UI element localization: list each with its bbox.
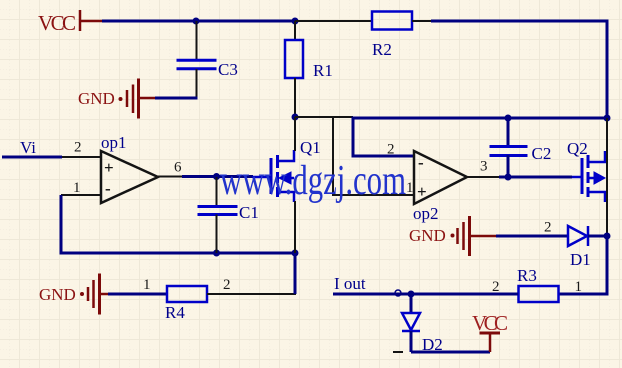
svg-text:GND: GND	[409, 226, 446, 245]
node junction D2	[408, 291, 415, 298]
svg-text:R3: R3	[517, 266, 537, 285]
wire C1 top lead	[216, 177, 218, 207]
wire C3 bottom to GND	[196, 69, 198, 97]
resistor R4	[165, 286, 207, 322]
wire R2 left lead	[295, 20, 373, 22]
node junction bottom rail right	[292, 250, 299, 257]
transistor Q2 (NMOS)	[567, 139, 605, 202]
svg-text:VCC: VCC	[38, 11, 76, 35]
pin 1 tick of D2	[393, 351, 403, 353]
wire R4 to Q1 source	[207, 293, 296, 295]
svg-text:1: 1	[143, 277, 151, 293]
node junction C1 top	[213, 173, 220, 180]
svg-text:1: 1	[406, 180, 414, 196]
svg-text:GND: GND	[78, 89, 115, 108]
svg-text:Q1: Q1	[300, 138, 321, 157]
wire op1 -input stub	[61, 194, 101, 196]
capacitor C3	[177, 60, 238, 79]
svg-text:I out: I out	[334, 274, 366, 293]
svg-text:D1: D1	[570, 250, 591, 269]
ground GND (middle right)	[409, 216, 496, 256]
svg-text:Vi: Vi	[20, 138, 36, 157]
wire D2 cathode down	[410, 331, 413, 352]
diode D1	[568, 226, 591, 269]
node junction C2 bottom	[505, 174, 512, 181]
wire op1 feedback down leg	[61, 195, 295, 253]
node junction VCC/C3	[193, 18, 200, 25]
svg-text:2: 2	[223, 277, 231, 293]
ground GND (bottom left)	[39, 274, 108, 315]
wire C3 top lead	[196, 21, 198, 60]
wire R2 right lead	[412, 20, 431, 22]
wire Q1 source down	[294, 201, 296, 253]
node junction C2 top	[505, 115, 512, 122]
op-amp op2	[413, 151, 467, 223]
power port VCC (bottom)	[472, 311, 508, 352]
wire Vi input	[2, 156, 62, 159]
node junction right rail	[604, 115, 611, 122]
power port VCC (top left)	[38, 10, 102, 35]
svg-text:C1: C1	[239, 203, 259, 222]
svg-text:C3: C3	[218, 60, 238, 79]
svg-text:1: 1	[73, 180, 81, 196]
wire D1 anode	[496, 235, 568, 238]
wire C2 bottom lead	[507, 155, 510, 177]
wire op1 output	[158, 176, 182, 178]
diode D2	[402, 313, 443, 354]
svg-text:2: 2	[544, 220, 552, 236]
wire C1 bottom lead	[216, 215, 218, 254]
wire R1 top lead	[294, 21, 296, 40]
ground GND (top)	[78, 79, 155, 119]
svg-text:3: 3	[480, 159, 488, 175]
svg-text:VCC: VCC	[472, 311, 508, 335]
svg-text:-: -	[105, 179, 111, 198]
svg-text:R2: R2	[372, 40, 392, 59]
wire top right rail	[431, 20, 609, 23]
wire op2 -input feedback loop	[353, 118, 607, 156]
svg-text:R1: R1	[313, 61, 333, 80]
wire R1 bottom lead	[294, 78, 296, 118]
svg-text:Q2: Q2	[567, 139, 588, 158]
node junction C1 bottom	[213, 250, 220, 257]
node junction D1/Q2	[604, 233, 611, 240]
svg-text:op1: op1	[101, 133, 127, 152]
svg-text:GND: GND	[39, 285, 76, 304]
wire op2 output	[467, 176, 499, 178]
node junction VCC/R1	[292, 18, 299, 25]
wire I out rail	[333, 293, 518, 296]
node open terminal	[395, 290, 401, 296]
wire VCC top rail	[102, 20, 295, 23]
wire D2 to VCC	[411, 351, 490, 354]
svg-text:+: +	[104, 158, 114, 177]
node junction R1/Q1/op2	[292, 114, 299, 121]
wire Q1 drain up	[294, 117, 296, 151]
svg-text:www.dgzj.com: www.dgzj.com	[220, 158, 406, 204]
wire D1 junction down to R3	[558, 236, 607, 294]
wire D1 cathode	[588, 235, 607, 238]
svg-text:R4: R4	[165, 303, 185, 322]
svg-text:1: 1	[575, 279, 583, 295]
svg-text:2: 2	[74, 140, 82, 156]
resistor R1	[285, 40, 333, 80]
wire GND to R4	[108, 293, 167, 296]
svg-text:C2: C2	[532, 144, 552, 163]
wire R4 riser to bottom rail	[294, 253, 297, 294]
svg-text:+: +	[417, 182, 427, 201]
capacitor C2	[490, 144, 552, 163]
svg-text:6: 6	[174, 160, 182, 176]
wire D2 anode lead	[410, 294, 413, 313]
svg-text:op2: op2	[413, 204, 439, 223]
svg-text:2: 2	[387, 142, 395, 158]
capacitor C1	[198, 203, 259, 222]
op-amp op1	[101, 133, 158, 203]
resistor R3	[517, 266, 559, 302]
resistor R2	[372, 12, 412, 60]
wire right vertical Q2	[606, 118, 608, 236]
wire right vertical drop	[606, 21, 609, 118]
transistor Q1 (NMOS)	[252, 138, 321, 202]
wire R1 to op2 +input	[295, 116, 353, 118]
svg-text:-: -	[418, 153, 424, 172]
wire C2 top lead	[507, 118, 510, 146]
